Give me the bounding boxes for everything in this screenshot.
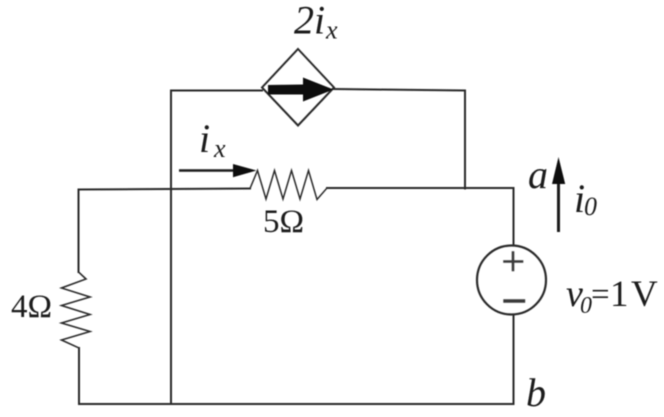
svg-text:4Ω: 4Ω	[11, 289, 52, 325]
svg-text:1V: 1V	[610, 274, 660, 315]
svg-text:x: x	[325, 16, 338, 45]
svg-text:2i: 2i	[294, 0, 325, 43]
svg-text:x: x	[213, 134, 226, 163]
svg-text:=: =	[591, 277, 610, 313]
svg-text:5Ω: 5Ω	[263, 204, 304, 240]
svg-text:i: i	[199, 116, 210, 161]
svg-text:0: 0	[584, 192, 597, 221]
svg-text:b: b	[526, 370, 546, 415]
svg-text:a: a	[528, 152, 548, 197]
